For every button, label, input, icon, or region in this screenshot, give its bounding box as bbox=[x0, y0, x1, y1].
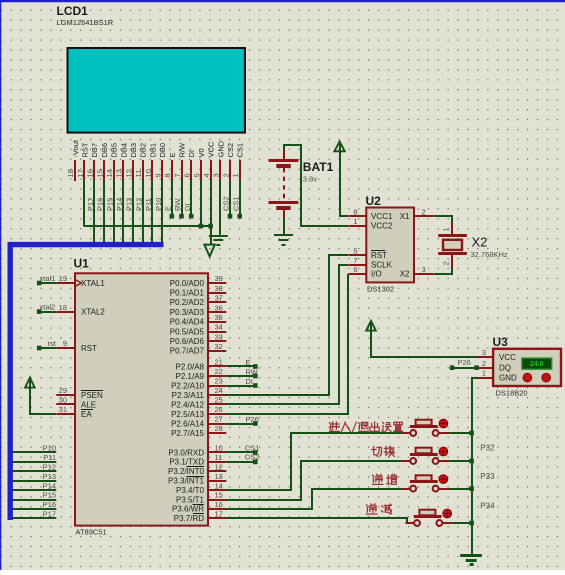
svg-text:xtal2: xtal2 bbox=[40, 303, 56, 312]
svg-text:LCD1: LCD1 bbox=[57, 4, 89, 18]
svg-text:PSEN: PSEN bbox=[81, 391, 103, 400]
U1 pin 26 (P2.5/A13) stub bbox=[208, 413, 226, 415]
svg-text:2: 2 bbox=[221, 173, 230, 177]
U2 pin 8 (VCC1) stub bbox=[348, 215, 366, 217]
svg-text:P0.1/AD1: P0.1/AD1 bbox=[170, 289, 205, 298]
svg-text:7: 7 bbox=[353, 256, 357, 265]
ground symbol below button rail bbox=[460, 556, 482, 565]
U3 pin 1 (GND) stub bbox=[477, 377, 493, 379]
svg-text:DB7: DB7 bbox=[90, 143, 99, 158]
crystal X2 pin 2 bbox=[451, 255, 453, 269]
wire U2 X1 to crystal bbox=[434, 216, 452, 224]
svg-text:DI: DI bbox=[183, 204, 192, 212]
svg-text:P3.2/INT0: P3.2/INT0 bbox=[168, 467, 205, 476]
wire LCD R/W stub end (net RW) bbox=[179, 180, 184, 219]
svg-text:15: 15 bbox=[95, 169, 104, 177]
RTC chip U2 body bbox=[366, 208, 414, 283]
push button SW1 (enter/exit) bbox=[402, 419, 449, 436]
wire LCD GND down to ground bbox=[219, 180, 221, 235]
LCD1 pin 14 (DB5) stub bbox=[113, 160, 115, 181]
button SW4 label: decrement (Chinese) bbox=[366, 504, 391, 514]
svg-text:3: 3 bbox=[422, 265, 426, 274]
U1 pin 22 (P2.1/A9) stub bbox=[208, 375, 226, 377]
wire SW2 to ground rail bbox=[449, 459, 474, 464]
svg-text:DQ: DQ bbox=[499, 364, 511, 373]
svg-text:GND: GND bbox=[499, 373, 517, 382]
U1 pin 29 (PSEN) stub bbox=[56, 394, 75, 396]
LCD1 pin 5 (V0) stub bbox=[200, 160, 202, 181]
svg-text:P3.0/RXD: P3.0/RXD bbox=[168, 448, 204, 457]
wire net P26 to U3 DQ bbox=[450, 365, 479, 370]
U3 pin 3 (VCC) stub bbox=[477, 356, 493, 358]
wire LCD RST(17) down and right to ground net bbox=[83, 180, 210, 226]
svg-text:3: 3 bbox=[212, 173, 221, 177]
svg-text:P3.5/T1: P3.5/T1 bbox=[176, 495, 205, 504]
svg-text:DB5: DB5 bbox=[110, 143, 119, 158]
svg-text:P10: P10 bbox=[154, 198, 163, 211]
svg-text:3: 3 bbox=[482, 348, 486, 357]
wire LCD DB2 to bus (net P12) bbox=[142, 180, 144, 246]
wire xtal2 terminal to U1 bbox=[37, 309, 56, 314]
svg-text:P32: P32 bbox=[480, 443, 495, 452]
LCD1 pin 18 (-Vout) stub bbox=[74, 160, 76, 181]
ground symbol below LCD GND bbox=[209, 236, 228, 245]
button SW3 label: increment (Chinese) bbox=[372, 474, 396, 484]
push button SW2 (switch) bbox=[402, 447, 449, 464]
U1 pin 33 (P0.6/AD6) stub bbox=[208, 340, 226, 342]
U1 pin 19 (XTAL1) stub bbox=[56, 282, 75, 284]
wire LCD DB5 to bus (net P15) bbox=[113, 180, 115, 246]
U3 pin 2 (DQ) stub bbox=[477, 367, 493, 369]
svg-text:P15: P15 bbox=[43, 491, 56, 500]
svg-text:19: 19 bbox=[59, 274, 67, 283]
svg-text:P3.3/INT1: P3.3/INT1 bbox=[168, 477, 205, 486]
svg-text:39: 39 bbox=[215, 274, 223, 283]
wire LCD DB0 to bus (net P10) bbox=[161, 180, 163, 246]
LCD1 pin 15 (DB6) stub bbox=[103, 160, 105, 181]
svg-text:1: 1 bbox=[442, 227, 451, 231]
svg-text:RST: RST bbox=[81, 142, 90, 157]
svg-text:22: 22 bbox=[215, 367, 223, 376]
svg-text:P14: P14 bbox=[43, 481, 56, 490]
svg-text:5: 5 bbox=[192, 173, 201, 177]
svg-text:AT89C51: AT89C51 bbox=[76, 528, 107, 537]
svg-text:X1: X1 bbox=[400, 212, 410, 221]
U3 temperature display bbox=[522, 358, 552, 369]
svg-text:DS1302: DS1302 bbox=[367, 285, 394, 294]
U3 indicator circle 1 bbox=[523, 373, 532, 382]
svg-text:1: 1 bbox=[353, 217, 357, 226]
svg-text:DI: DI bbox=[245, 377, 253, 386]
wire U1 P2.5 to U2 I/O bbox=[226, 274, 348, 414]
wire U1 P2.3 to U2 RST bbox=[226, 255, 348, 395]
svg-text:ALE: ALE bbox=[81, 400, 96, 409]
svg-text:SCLK: SCLK bbox=[371, 261, 393, 270]
svg-text:P11: P11 bbox=[144, 198, 153, 211]
wire U1 P3.6 to button SW3 bbox=[226, 489, 402, 509]
ground symbol below BAT1 bbox=[274, 235, 293, 245]
U2 pin 7 (SCLK) stub bbox=[348, 264, 366, 266]
LCD1 pin 3 (GND) stub bbox=[219, 160, 221, 181]
U1 pin 39 (P0.0/AD0) stub bbox=[208, 282, 226, 284]
svg-text:P2.3/A11: P2.3/A11 bbox=[172, 391, 205, 400]
wire bus to U1 P1.4 (net P14) bbox=[13, 489, 57, 491]
LCD1 pin 1 (CS1) stub bbox=[239, 160, 241, 181]
svg-text:31: 31 bbox=[59, 405, 67, 414]
U2 pin 6 (I/O) stub bbox=[348, 273, 366, 275]
svg-text:16: 16 bbox=[86, 169, 95, 177]
svg-text:6: 6 bbox=[183, 173, 192, 177]
wire bus to U1 P1.3 (net P13) bbox=[13, 480, 57, 482]
svg-text:U3: U3 bbox=[493, 335, 509, 349]
svg-text:24.0: 24.0 bbox=[530, 361, 544, 368]
svg-text:LGM12641BS1R: LGM12641BS1R bbox=[57, 18, 114, 27]
svg-text:11: 11 bbox=[134, 170, 143, 178]
svg-text:-Vout: -Vout bbox=[71, 139, 80, 157]
LCD1 pin 7 (R/W) stub bbox=[181, 160, 183, 181]
svg-text:21: 21 bbox=[215, 358, 223, 367]
svg-text:1: 1 bbox=[482, 369, 486, 378]
wire rst terminal to U1 bbox=[37, 346, 56, 351]
svg-text:P13: P13 bbox=[125, 198, 134, 211]
svg-text:E: E bbox=[245, 358, 250, 367]
LCD1 pin 2 (CS2) stub bbox=[229, 160, 231, 181]
U1 pin 11 (P3.1/TXD) stub bbox=[208, 461, 226, 463]
U1 pin 35 (P0.4/AD4) stub bbox=[208, 321, 226, 323]
LCD1 pin 17 (RST) stub bbox=[83, 160, 85, 181]
U2 pin 2 (X1) stub bbox=[414, 215, 434, 217]
svg-text:P10: P10 bbox=[43, 444, 56, 453]
svg-text:2: 2 bbox=[422, 208, 426, 217]
svg-text:23: 23 bbox=[215, 377, 223, 386]
U1 pin 38 (P0.1/AD1) stub bbox=[208, 292, 226, 294]
svg-text:EA: EA bbox=[81, 410, 92, 419]
svg-text:P2.7/A15: P2.7/A15 bbox=[171, 429, 204, 438]
crystal X2 body bbox=[438, 236, 467, 254]
svg-text:6: 6 bbox=[353, 265, 357, 274]
wire bus to U1 P1.2 (net P12) bbox=[13, 470, 57, 472]
svg-text:2: 2 bbox=[482, 359, 486, 368]
svg-text:E: E bbox=[168, 152, 177, 157]
svg-text:XTAL2: XTAL2 bbox=[81, 307, 105, 316]
svg-text:P12: P12 bbox=[43, 463, 56, 472]
battery BAT1 bbox=[269, 150, 299, 218]
U1 pin 30 (ALE) stub bbox=[56, 403, 75, 405]
svg-text:R/W: R/W bbox=[178, 142, 187, 158]
svg-text:P17: P17 bbox=[43, 510, 56, 519]
svg-text:CS2: CS2 bbox=[222, 196, 231, 211]
svg-text:36: 36 bbox=[215, 303, 223, 312]
svg-text:29: 29 bbox=[59, 386, 67, 395]
svg-text:P16: P16 bbox=[43, 500, 56, 509]
svg-text:P2.6/A14: P2.6/A14 bbox=[171, 419, 204, 428]
U1 pin 17 (P3.7/RD) stub bbox=[208, 517, 226, 519]
svg-text:P2.4/A12: P2.4/A12 bbox=[171, 400, 204, 409]
wire crystal to U2 X2 bbox=[434, 268, 452, 274]
wire LCD DB7 to bus (net P17) bbox=[93, 180, 95, 246]
svg-text:P0.7/AD7: P0.7/AD7 bbox=[170, 347, 205, 356]
svg-text:16: 16 bbox=[215, 500, 223, 509]
U1 pin 32 (P0.7/AD7) stub bbox=[208, 350, 226, 352]
U1 pin 18 (XTAL2) stub bbox=[56, 311, 75, 313]
wire bus to U1 P1.5 (net P15) bbox=[13, 499, 57, 501]
svg-text:CS1: CS1 bbox=[236, 143, 245, 158]
svg-text:12: 12 bbox=[215, 463, 223, 472]
svg-text:CS2: CS2 bbox=[245, 453, 260, 462]
U1 pin 10 (P3.0/RXD) stub bbox=[208, 451, 226, 453]
svg-text:8: 8 bbox=[163, 173, 172, 177]
U1 pin 31 (EA) stub bbox=[56, 413, 75, 415]
svg-text:P0.2/AD2: P0.2/AD2 bbox=[170, 298, 205, 307]
wire U1 to net CS1 bbox=[226, 450, 257, 455]
push button SW3 (increment) bbox=[402, 475, 449, 492]
wire LCD CS1 stub end (net CS1) bbox=[237, 180, 242, 219]
svg-text:38: 38 bbox=[215, 284, 223, 293]
wire battery top to U2 VCC2 bbox=[284, 145, 348, 226]
wire bus to U1 P1.0 (net P10) bbox=[13, 451, 57, 453]
U1 pin 37 (P0.2/AD2) stub bbox=[208, 301, 226, 303]
wire LCD V0 down to ground net junction bbox=[199, 180, 204, 228]
wire SW4 to ground rail bbox=[452, 521, 474, 526]
wire U1 P3.4 to button SW1 bbox=[226, 433, 402, 490]
svg-text:35: 35 bbox=[215, 313, 223, 322]
svg-text:RW: RW bbox=[173, 198, 182, 211]
svg-text:24: 24 bbox=[215, 386, 223, 395]
svg-text:GND: GND bbox=[216, 140, 225, 157]
svg-text:18: 18 bbox=[59, 303, 67, 312]
U2 pin 5 (RST) stub bbox=[348, 254, 366, 256]
LCD1 pin 4 (VCC) stub bbox=[210, 160, 212, 181]
wire LCD CS2 stub end (net CS2) bbox=[228, 180, 233, 219]
svg-text:I/O: I/O bbox=[371, 270, 382, 279]
svg-text:12: 12 bbox=[124, 169, 133, 177]
svg-text:DS18B20: DS18B20 bbox=[496, 389, 528, 398]
svg-text:37: 37 bbox=[215, 294, 223, 303]
wire U1 to net DI bbox=[226, 383, 257, 388]
U1 pin 27 (P2.6/A14) stub bbox=[208, 423, 226, 425]
power terminal above U3 wire bbox=[366, 321, 376, 331]
svg-text:P0.3/AD3: P0.3/AD3 bbox=[170, 308, 205, 317]
wire bus to U1 P1.6 (net P16) bbox=[13, 508, 57, 510]
LCD1 pin 10 (DB1) stub bbox=[151, 160, 153, 181]
svg-text:DB0: DB0 bbox=[158, 143, 167, 158]
svg-text:P2.1/A9: P2.1/A9 bbox=[176, 372, 205, 381]
svg-text:P3.4/T0: P3.4/T0 bbox=[176, 486, 205, 495]
wire SW1 to ground rail bbox=[449, 431, 474, 436]
svg-text:P11: P11 bbox=[43, 453, 56, 462]
U3 indicator circle 2 bbox=[542, 373, 551, 382]
svg-text:26: 26 bbox=[215, 405, 223, 414]
svg-text:5: 5 bbox=[353, 246, 357, 255]
bus from LCD data pins to U1 P1 port bbox=[10, 245, 163, 520]
svg-text:DI: DI bbox=[187, 150, 196, 158]
svg-text:30: 30 bbox=[59, 396, 67, 405]
wire xtal1 terminal to U1 bbox=[37, 281, 56, 286]
button SW2 label: switch (Chinese) bbox=[372, 446, 395, 456]
svg-text:U1: U1 bbox=[74, 257, 90, 271]
svg-text:17: 17 bbox=[215, 510, 223, 519]
svg-text:10: 10 bbox=[144, 169, 153, 177]
U1 pin 36 (P0.3/AD3) stub bbox=[208, 311, 226, 313]
svg-text:BAT1: BAT1 bbox=[303, 160, 334, 174]
svg-text:13: 13 bbox=[115, 169, 124, 177]
LCD1 pin 13 (DB4) stub bbox=[122, 160, 124, 181]
svg-text:VCC2: VCC2 bbox=[371, 222, 393, 231]
svg-text:DB1: DB1 bbox=[148, 143, 157, 158]
svg-text:VCC: VCC bbox=[499, 353, 516, 362]
svg-text:17: 17 bbox=[76, 169, 85, 177]
wire battery bottom to ground bbox=[283, 218, 285, 234]
svg-text:P16: P16 bbox=[96, 198, 105, 211]
U1 pin 28 (P2.7/A15) stub bbox=[208, 432, 226, 434]
svg-text:P2.5/A13: P2.5/A13 bbox=[171, 410, 204, 419]
wire U1 P2.4 to U2 SCLK bbox=[226, 265, 348, 404]
svg-text:CS1: CS1 bbox=[231, 196, 240, 211]
LCD1 pin 9 (DB0) stub bbox=[161, 160, 163, 181]
svg-text:P0.6/AD6: P0.6/AD6 bbox=[170, 337, 205, 346]
svg-text:32.768KHz: 32.768KHz bbox=[471, 250, 508, 259]
svg-text:P26: P26 bbox=[245, 415, 258, 424]
svg-text:CS1: CS1 bbox=[245, 443, 260, 452]
svg-text:P3.6/WR: P3.6/WR bbox=[172, 505, 204, 514]
svg-text:DB3: DB3 bbox=[129, 143, 138, 158]
svg-text:P0.4/AD4: P0.4/AD4 bbox=[170, 318, 205, 327]
wire LCD DB6 to bus (net P16) bbox=[103, 180, 105, 246]
wire U1 to net CS2 bbox=[226, 460, 257, 465]
wire U1 P3.5 to button SW2 bbox=[226, 461, 402, 500]
wire U1 P2.6 to net P26 bbox=[226, 421, 257, 426]
wire U1 P3.7 to button SW4 bbox=[226, 518, 414, 523]
temperature sensor U3 body bbox=[493, 349, 561, 386]
svg-text:8: 8 bbox=[353, 208, 357, 217]
svg-text:V0: V0 bbox=[197, 148, 206, 157]
svg-text:DB2: DB2 bbox=[139, 143, 148, 158]
microcontroller U1 body bbox=[75, 273, 208, 525]
svg-text:P3.7/RD: P3.7/RD bbox=[174, 514, 204, 523]
svg-text:VCC: VCC bbox=[207, 141, 216, 157]
svg-text:DB4: DB4 bbox=[119, 143, 128, 158]
svg-text:14: 14 bbox=[105, 169, 114, 177]
wire bus to U1 P1.1 (net P11) bbox=[13, 461, 57, 463]
svg-text:P2.2/A10: P2.2/A10 bbox=[171, 381, 204, 390]
U1 pin 14 (P3.4/T0) stub bbox=[208, 489, 226, 491]
svg-text:P15: P15 bbox=[105, 198, 114, 211]
svg-text:rst: rst bbox=[48, 339, 57, 348]
wire LCD E stub end (net E) bbox=[170, 180, 175, 219]
svg-text:11: 11 bbox=[215, 453, 223, 462]
LCD1 pin 16 (DB7) stub bbox=[93, 160, 95, 181]
svg-text:RST: RST bbox=[371, 251, 387, 260]
svg-text:xtal1: xtal1 bbox=[40, 274, 56, 283]
svg-text:P12: P12 bbox=[134, 198, 143, 211]
svg-text:33: 33 bbox=[215, 332, 223, 341]
power terminal above U2 bbox=[334, 142, 344, 152]
svg-text:9: 9 bbox=[63, 339, 67, 348]
svg-text:P34: P34 bbox=[480, 501, 495, 510]
svg-text:E: E bbox=[164, 206, 173, 211]
svg-text:XTAL1: XTAL1 bbox=[81, 279, 105, 288]
svg-text:4: 4 bbox=[202, 173, 211, 177]
svg-text:28: 28 bbox=[215, 424, 223, 433]
wire SW3 to ground rail bbox=[449, 486, 474, 491]
svg-text:9: 9 bbox=[154, 173, 163, 177]
U1 pin 15 (P3.5/T1) stub bbox=[208, 499, 226, 501]
svg-text:P14: P14 bbox=[115, 198, 124, 211]
svg-text:18: 18 bbox=[66, 169, 75, 177]
svg-text:X2: X2 bbox=[400, 270, 410, 279]
wire U1 to net RW bbox=[226, 374, 257, 379]
LCD1 pin 8 (E) stub bbox=[171, 160, 173, 181]
svg-text:2: 2 bbox=[442, 261, 451, 265]
U1 pin 25 (P2.4/A12) stub bbox=[208, 403, 226, 405]
wire U1 to net E bbox=[226, 364, 257, 369]
svg-text:32: 32 bbox=[215, 342, 223, 351]
button SW1 label: enter/exit settings (Chinese) bbox=[329, 422, 402, 433]
svg-text:P13: P13 bbox=[43, 472, 56, 481]
svg-text:3.3v: 3.3v bbox=[303, 174, 317, 183]
U2 pin 3 (X2) stub bbox=[414, 273, 434, 275]
U1 pin 9 (RST) stub bbox=[56, 347, 75, 349]
svg-text:27: 27 bbox=[215, 415, 223, 424]
svg-text:P2.0/A8: P2.0/A8 bbox=[176, 362, 205, 371]
LCD1 pin 12 (DB3) stub bbox=[132, 160, 134, 181]
wire power terminal to U3 VCC bbox=[371, 323, 477, 357]
wire EA to power terminal bbox=[30, 380, 56, 414]
LCD1 pin 6 (DI) stub bbox=[190, 160, 192, 181]
U2 pin 1 (VCC2) stub bbox=[348, 225, 366, 227]
wire U3 GND down to button rail bbox=[472, 378, 477, 555]
svg-text:RW: RW bbox=[245, 367, 258, 376]
svg-text:P0.0/AD0: P0.0/AD0 bbox=[170, 279, 205, 288]
wire LCD VCC down to ground terminal bbox=[208, 180, 213, 245]
svg-text:P26: P26 bbox=[458, 358, 471, 367]
svg-text:14: 14 bbox=[215, 481, 223, 490]
svg-text:10: 10 bbox=[215, 444, 223, 453]
U1 pin 23 (P2.2/A10) stub bbox=[208, 385, 226, 387]
svg-text:7: 7 bbox=[173, 173, 182, 177]
svg-text:P3.1/TXD: P3.1/TXD bbox=[169, 458, 204, 467]
svg-text:DB6: DB6 bbox=[100, 143, 109, 158]
LCD1 pin 11 (DB2) stub bbox=[142, 160, 144, 181]
svg-text:15: 15 bbox=[215, 491, 223, 500]
svg-text:X2: X2 bbox=[472, 235, 488, 250]
svg-text:RST: RST bbox=[81, 344, 97, 353]
svg-text:13: 13 bbox=[215, 472, 223, 481]
wire LCD DI stub end (net DI) bbox=[189, 180, 194, 219]
svg-text:1: 1 bbox=[231, 173, 240, 177]
crystal X2 pin 1 bbox=[451, 224, 453, 236]
wire bus to U1 P1.7 (net P17) bbox=[13, 517, 57, 519]
U1 pin 21 (P2.0/A8) stub bbox=[208, 365, 226, 367]
svg-text:P0.5/AD5: P0.5/AD5 bbox=[170, 327, 205, 336]
wire LCD DB3 to bus (net P13) bbox=[132, 180, 134, 246]
svg-text:P33: P33 bbox=[480, 472, 495, 481]
svg-text:CS2: CS2 bbox=[226, 143, 235, 158]
svg-text:U2: U2 bbox=[366, 194, 382, 208]
svg-text:P17: P17 bbox=[86, 198, 95, 211]
U1 pin 12 (P3.2/INT0) stub bbox=[208, 470, 226, 472]
power terminal at EA bbox=[25, 378, 35, 388]
wire power terminal to U2 VCC1 bbox=[340, 144, 348, 216]
svg-text:VCC1: VCC1 bbox=[371, 212, 393, 221]
U1 pin 34 (P0.5/AD5) stub bbox=[208, 331, 226, 333]
svg-text:34: 34 bbox=[215, 323, 223, 332]
svg-text:25: 25 bbox=[215, 396, 223, 405]
U1 pin 24 (P2.3/A11) stub bbox=[208, 394, 226, 396]
wire LCD DB4 to bus (net P14) bbox=[122, 180, 124, 246]
LCD1 screen body bbox=[68, 48, 246, 133]
U1 pin 13 (P3.3/INT1) stub bbox=[208, 480, 226, 482]
